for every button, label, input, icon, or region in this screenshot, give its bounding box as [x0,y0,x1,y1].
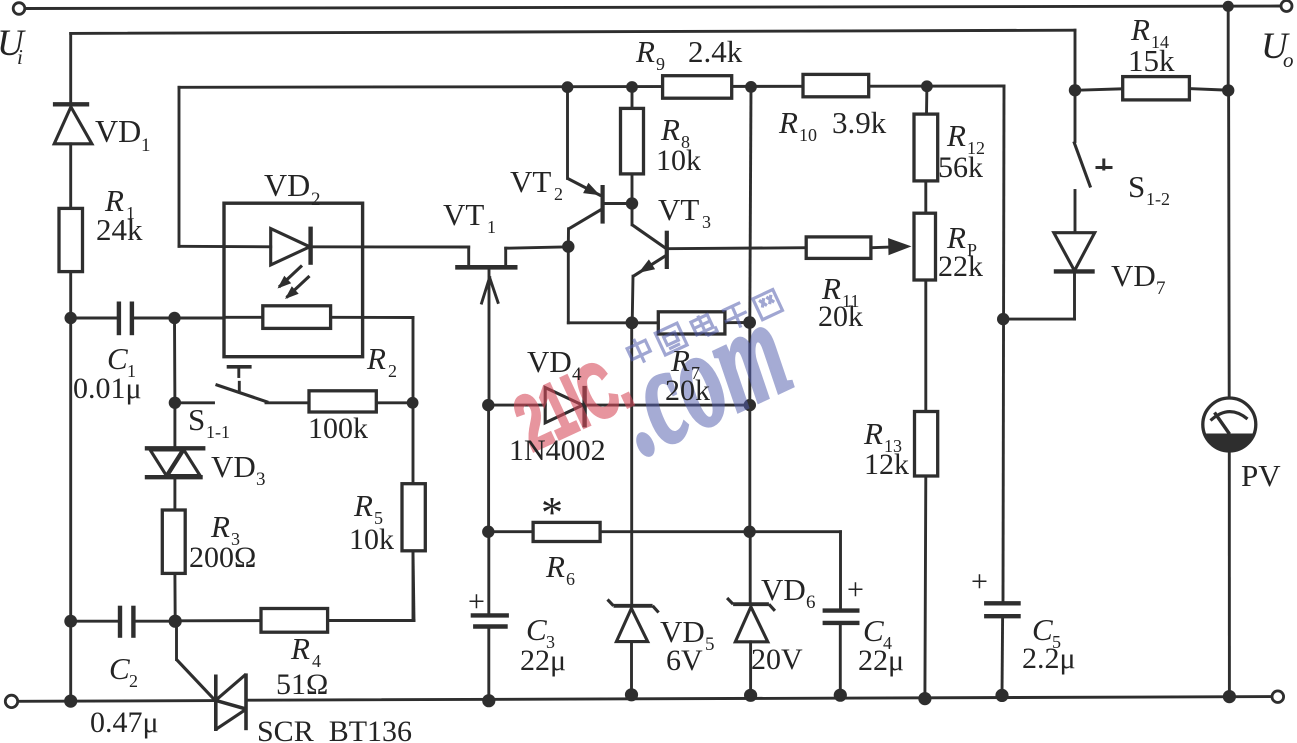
svg-text:2: 2 [129,671,138,691]
svg-text:S: S [188,402,205,437]
svg-text:2.4k: 2.4k [688,34,743,69]
svg-text:0.47μ: 0.47μ [90,706,159,739]
svg-text:200Ω: 200Ω [189,541,256,574]
svg-text:VT: VT [658,192,699,227]
svg-text:R: R [660,112,680,147]
svg-text:5: 5 [705,634,715,655]
svg-text:2: 2 [388,361,397,381]
svg-text:6: 6 [806,592,816,613]
svg-text:0.01μ: 0.01μ [73,372,142,405]
svg-text:VD: VD [527,344,572,379]
svg-text:9: 9 [656,54,665,74]
svg-text:1N4002: 1N4002 [509,434,606,467]
svg-text:3.9k: 3.9k [832,105,887,140]
svg-text:SCR BT136: SCR BT136 [257,715,412,743]
svg-text:1: 1 [141,135,151,156]
svg-text:15k: 15k [1128,43,1175,78]
svg-text:R: R [353,488,373,523]
svg-text:R: R [1130,12,1150,47]
svg-text:R: R [210,509,230,544]
svg-text:R: R [670,343,690,378]
svg-text:+: + [971,565,988,598]
svg-text:R: R [863,416,883,451]
svg-text:*: * [541,488,563,537]
svg-text:2: 2 [311,189,321,210]
svg-text:C: C [863,613,884,648]
svg-text:3: 3 [702,212,711,232]
svg-text:R: R [545,549,565,584]
svg-text:6: 6 [566,569,575,589]
svg-text:7: 7 [1156,278,1166,299]
svg-text:C: C [107,341,128,376]
svg-text:VT: VT [443,197,484,232]
svg-text:20V: 20V [751,643,803,676]
svg-text:1-1: 1-1 [206,422,230,442]
svg-text:+: + [847,573,864,606]
svg-text:i: i [17,45,23,69]
svg-text:C: C [526,612,547,647]
svg-text:100k: 100k [308,412,368,445]
svg-text:6V: 6V [666,644,703,677]
svg-text:22μ: 22μ [858,644,904,677]
svg-text:1-2: 1-2 [1146,189,1170,209]
svg-text:2.2μ: 2.2μ [1022,642,1076,675]
svg-text:VD: VD [211,449,256,484]
svg-text:R: R [366,341,386,376]
svg-text:R: R [635,34,655,69]
svg-text:51Ω: 51Ω [276,668,328,701]
svg-text:VD: VD [761,572,806,607]
svg-text:10k: 10k [656,144,701,177]
svg-text:R: R [290,631,310,666]
svg-text:2: 2 [554,184,563,204]
svg-text:C: C [109,651,130,686]
svg-text:24k: 24k [96,212,143,247]
svg-text:R: R [946,118,966,153]
svg-text:56k: 56k [938,151,983,184]
svg-text:PV: PV [1241,458,1281,493]
svg-text:o: o [1283,48,1294,72]
svg-text:+: + [468,585,485,618]
svg-text:12k: 12k [864,448,909,481]
svg-text:S: S [1128,169,1145,204]
svg-text:10k: 10k [349,523,394,556]
svg-text:4: 4 [572,364,582,385]
svg-text:R: R [778,105,798,140]
svg-text:20k: 20k [665,374,710,407]
svg-text:1: 1 [487,217,496,237]
svg-text:VD: VD [264,167,310,203]
svg-text:10: 10 [799,125,817,145]
svg-text:22μ: 22μ [520,644,566,677]
svg-text:VT: VT [510,164,551,199]
svg-text:22k: 22k [938,250,983,283]
svg-text:3: 3 [256,469,266,490]
svg-text:VD: VD [95,113,141,149]
svg-text:20k: 20k [818,300,863,333]
svg-text:VD: VD [1111,258,1156,293]
